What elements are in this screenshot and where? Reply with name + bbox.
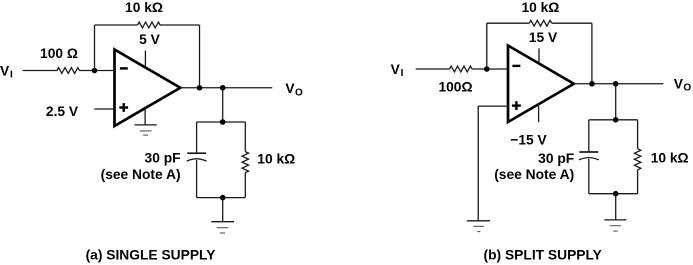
wire load bottom rail-b xyxy=(589,193,638,195)
node Vin-a label xyxy=(0,63,13,80)
svg-text:(see Note A): (see Note A) xyxy=(101,167,181,182)
svg-text:V: V xyxy=(285,81,295,96)
wire load top rail-b xyxy=(589,119,638,121)
svg-text:O: O xyxy=(295,87,303,98)
resistor 100ohm-b xyxy=(450,66,472,72)
op-amp U1b minus input marker xyxy=(512,65,520,67)
svg-text:I: I xyxy=(10,70,13,81)
value label 10 kohm feedback-b xyxy=(521,0,559,15)
svg-text:30 pF: 30 pF xyxy=(145,150,181,165)
value label 10 kohm load-b xyxy=(651,150,689,165)
wire capacitor top lead-a xyxy=(196,122,198,153)
wire ground pin of U1a xyxy=(144,107,146,125)
caption (a) SINGLE SUPPLY xyxy=(86,247,216,262)
wire output down to load-a xyxy=(222,88,224,122)
svg-text:(a) SINGLE SUPPLY: (a) SINGLE SUPPLY xyxy=(86,247,216,262)
svg-text:(b) SPLIT SUPPLY: (b) SPLIT SUPPLY xyxy=(484,247,602,262)
op-amp U1b plus input marker xyxy=(512,101,521,110)
wire output down to load-b xyxy=(615,84,617,120)
resistor 10kohm load-a xyxy=(242,152,248,173)
junction load-output-a xyxy=(220,85,226,91)
junction feedback-output-a xyxy=(197,85,203,91)
resistor 10kohm load-b xyxy=(634,149,640,170)
svg-text:10 kΩ: 10 kΩ xyxy=(125,0,163,15)
resistor 10kohm feedback-b xyxy=(529,20,551,26)
svg-text:100Ω: 100Ω xyxy=(438,80,472,95)
note label see Note A-b xyxy=(494,167,574,182)
resistor 100ohm-a xyxy=(57,68,79,74)
value label 30 pF xyxy=(145,150,181,165)
svg-text:V: V xyxy=(0,63,10,78)
caption (b) SPLIT SUPPLY xyxy=(484,247,602,262)
wire plus input to ground-b horizontal xyxy=(478,105,508,107)
svg-text:−15 V: −15 V xyxy=(510,133,547,148)
junction feedback-output-b xyxy=(589,81,595,87)
value label -15 V supply xyxy=(510,133,547,148)
wire feedback top right-b xyxy=(552,22,592,24)
wire resistor bottom lead-b xyxy=(637,170,639,194)
wire capacitor bottom lead-b xyxy=(588,159,590,194)
capacitor 30pF-a xyxy=(187,153,207,161)
value label 100 ohm-a xyxy=(40,46,78,61)
wire node B1 up to feedback xyxy=(486,23,488,69)
junction load bottom-a xyxy=(220,195,226,201)
wire feedback top left xyxy=(95,24,138,26)
ground plus input-b xyxy=(467,221,490,232)
junction load bottom-b xyxy=(613,191,619,197)
svg-text:(see Note A): (see Note A) xyxy=(494,167,574,182)
wire resistor bottom lead-a xyxy=(244,173,246,198)
junction load top-a xyxy=(220,119,226,125)
svg-text:30 pF: 30 pF xyxy=(538,151,574,166)
junction load-output-b xyxy=(613,81,619,87)
svg-text:10 kΩ: 10 kΩ xyxy=(651,150,689,165)
wire resistor top lead-b xyxy=(637,120,639,149)
svg-text:10 kΩ: 10 kΩ xyxy=(257,151,295,166)
wire ground stem load-b xyxy=(615,194,617,220)
svg-text:I: I xyxy=(401,68,404,79)
wire 2.5V to plus input xyxy=(94,108,114,110)
svg-text:2.5 V: 2.5 V xyxy=(46,104,79,119)
wire node A1 up to feedback xyxy=(94,25,96,71)
node Vout-a label xyxy=(285,81,303,98)
resistor 10kohm feedback-a xyxy=(138,22,160,28)
op-amp U1b xyxy=(508,46,574,123)
value label 15 V supply xyxy=(529,30,558,45)
wire resistor top lead-a xyxy=(244,122,246,152)
node Vin-b label xyxy=(391,62,404,79)
ground load-b xyxy=(604,220,626,231)
value label 30 pF-b xyxy=(538,151,574,166)
node Vout-b label xyxy=(674,77,692,94)
wire capacitor top lead-b xyxy=(588,120,590,152)
op-amp U1a xyxy=(115,50,181,127)
ground load-a xyxy=(211,222,234,233)
svg-text:V: V xyxy=(391,62,401,77)
value label 5 V supply xyxy=(139,32,161,47)
svg-text:10 kΩ: 10 kΩ xyxy=(521,0,559,15)
value label 10 kohm feedback-a xyxy=(125,0,163,15)
junction load top-b xyxy=(613,117,619,123)
wire capacitor bottom lead-a xyxy=(196,160,198,198)
wire feedback top left-b xyxy=(487,22,530,24)
note label see Note A-a xyxy=(101,167,181,182)
wire 100ohm-a to inverting input xyxy=(79,70,114,72)
svg-text:5 V: 5 V xyxy=(139,32,161,47)
wire feedback right vertical down to output-b xyxy=(591,23,593,84)
ground op-amp-a xyxy=(135,125,157,135)
value label 10 kohm load-a xyxy=(257,151,295,166)
wire supply pin 5V-a xyxy=(144,51,146,69)
wire feedback top right xyxy=(160,24,200,26)
svg-text:V: V xyxy=(674,77,684,92)
wire input-b xyxy=(416,68,450,70)
op-amp U1a minus input marker xyxy=(120,67,128,69)
wire ground stem load-a xyxy=(222,198,224,222)
svg-text:O: O xyxy=(683,83,691,94)
junction node B1 xyxy=(484,66,490,72)
wire output-a xyxy=(180,87,272,89)
wire 100ohm-b to inverting input xyxy=(472,68,508,70)
wire output-b xyxy=(574,83,664,85)
capacitor 30pF-b xyxy=(579,152,599,160)
svg-text:15 V: 15 V xyxy=(529,30,558,45)
wire input-a xyxy=(23,70,57,72)
value label 2.5 V xyxy=(46,104,79,119)
op-amp U1a plus input marker xyxy=(119,103,128,112)
wire load bottom rail-a xyxy=(197,197,246,199)
value label 100ohm-b xyxy=(438,80,472,95)
svg-text:100 Ω: 100 Ω xyxy=(40,46,78,61)
wire negative supply pin -15V-b xyxy=(538,103,540,122)
junction node A1 xyxy=(92,68,98,74)
wire supply pin 15V-b xyxy=(538,48,540,63)
wire feedback right vertical down to output xyxy=(199,25,201,88)
wire plus input ground vertical-b xyxy=(477,106,479,221)
wire load top rail-a xyxy=(197,121,246,123)
